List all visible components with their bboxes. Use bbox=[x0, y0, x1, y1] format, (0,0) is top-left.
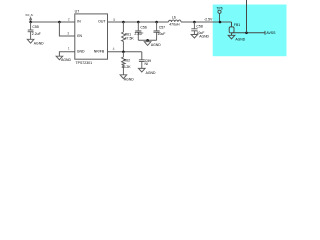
wire after inductor bbox=[181, 21, 232, 23]
capacitor C56 bbox=[135, 22, 141, 40]
svg-text:AGND: AGND bbox=[235, 37, 245, 41]
svg-text:AGND: AGND bbox=[146, 71, 156, 75]
ferrite bead FB1 bbox=[229, 27, 234, 33]
ground AGND (C56/C57) bbox=[144, 42, 151, 46]
svg-text:C57: C57 bbox=[159, 26, 165, 30]
node C55 junction bbox=[29, 21, 32, 24]
svg-text:AGND: AGND bbox=[61, 58, 71, 62]
svg-text:FB1: FB1 bbox=[234, 23, 240, 27]
wire OUT rail bbox=[108, 21, 169, 23]
highlight box (cyan region) bbox=[213, 5, 287, 57]
node C57 junction bbox=[155, 21, 158, 24]
resistor R62 bbox=[122, 52, 126, 75]
ground AGND (C58) bbox=[191, 35, 198, 39]
svg-text:C55: C55 bbox=[32, 25, 38, 29]
node AVSS junction bbox=[245, 32, 248, 35]
svg-text:NI: NI bbox=[145, 62, 149, 66]
inductor L6 bbox=[169, 20, 182, 22]
svg-text:5: 5 bbox=[113, 18, 115, 22]
svg-text:AGND: AGND bbox=[34, 42, 44, 46]
power flag VCC_-5V bbox=[29, 18, 32, 23]
node ground bus junction bbox=[146, 39, 149, 42]
node C58 junction bbox=[193, 21, 196, 24]
node TP6 junction bbox=[219, 21, 222, 24]
svg-text:NR/FB: NR/FB bbox=[94, 50, 105, 54]
svg-text:4: 4 bbox=[113, 47, 115, 51]
wire vertical from top edge bbox=[246, 0, 248, 33]
svg-text:EN: EN bbox=[77, 34, 82, 38]
wire cap ground bus bbox=[138, 39, 156, 41]
svg-text:3: 3 bbox=[67, 32, 69, 36]
wire GND pin to ground bbox=[59, 52, 74, 56]
test point TP6 bbox=[218, 10, 221, 13]
svg-text:2.2uF: 2.2uF bbox=[134, 32, 143, 36]
svg-text:1: 1 bbox=[68, 47, 70, 51]
svg-text:IN: IN bbox=[77, 20, 81, 24]
svg-text:OUT: OUT bbox=[98, 20, 106, 24]
resistor R61 bbox=[122, 22, 126, 52]
svg-text:C56: C56 bbox=[140, 26, 146, 30]
capacitor C59 (NI) bbox=[139, 60, 145, 69]
IC U7 (TPS72301 regulator) bbox=[75, 14, 108, 59]
capacitor C55 bbox=[28, 22, 34, 39]
svg-text:10uF: 10uF bbox=[157, 32, 165, 36]
svg-text:TPS72301: TPS72301 bbox=[76, 61, 93, 65]
wire EN branch bbox=[59, 22, 74, 36]
node EN tap junction bbox=[58, 21, 61, 24]
ground AGND (FB1) bbox=[228, 35, 235, 39]
wire NR/FB bbox=[108, 51, 142, 53]
wire bead to ground bbox=[231, 33, 233, 36]
svg-text:47.5K: 47.5K bbox=[125, 36, 135, 40]
wire FB to C59 bbox=[141, 52, 143, 60]
svg-text:AGND: AGND bbox=[124, 77, 134, 81]
svg-text:2.2uF: 2.2uF bbox=[32, 32, 41, 36]
svg-text:U7: U7 bbox=[75, 9, 80, 13]
wire input rail bbox=[31, 21, 75, 23]
svg-text:TP6: TP6 bbox=[216, 7, 222, 11]
svg-text:43.2K: 43.2K bbox=[122, 65, 132, 69]
svg-text:AGND: AGND bbox=[199, 35, 209, 39]
ground AGND (C59) bbox=[139, 68, 146, 72]
ground AGND (R62) bbox=[120, 75, 127, 79]
node FB junction bbox=[122, 51, 125, 54]
svg-text:GND: GND bbox=[77, 50, 85, 54]
svg-text:VCC_-5v: VCC_-5v bbox=[25, 14, 33, 17]
svg-text:C58: C58 bbox=[196, 24, 202, 28]
svg-text:AGND: AGND bbox=[151, 43, 161, 47]
svg-text:-2.5V: -2.5V bbox=[204, 18, 213, 22]
capacitor C58 bbox=[191, 22, 197, 35]
power flag AVSS bbox=[264, 31, 266, 35]
wire rail corner down to bead bbox=[231, 22, 233, 27]
svg-text:AVSS: AVSS bbox=[266, 31, 276, 35]
node R61 junction bbox=[122, 21, 125, 24]
capacitor C57 bbox=[154, 22, 160, 40]
svg-text:2: 2 bbox=[68, 18, 70, 22]
ground AGND (C55) bbox=[27, 39, 34, 43]
svg-text:470uH: 470uH bbox=[169, 23, 180, 27]
ground AGND (U7 GND) bbox=[56, 56, 63, 60]
svg-text:L6: L6 bbox=[172, 16, 176, 20]
wire AVSS bbox=[232, 32, 266, 34]
svg-text:R62: R62 bbox=[124, 59, 130, 63]
node C56 junction bbox=[137, 21, 140, 24]
